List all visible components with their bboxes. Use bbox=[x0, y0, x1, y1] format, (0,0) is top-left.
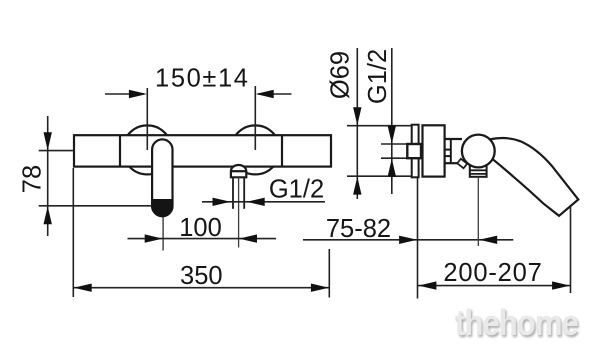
left escutcheon circle bbox=[123, 125, 172, 174]
connector bottom line bbox=[445, 162, 460, 164]
dim 150±14 left arrow bbox=[129, 90, 147, 98]
spout side view bbox=[489, 138, 578, 216]
fitting equator line bbox=[231, 170, 246, 172]
right escutcheon circle bbox=[231, 125, 280, 174]
svg-text:150±14: 150±14 bbox=[155, 65, 250, 93]
dim 350 line bbox=[73, 287, 329, 289]
fitting pipe left line bbox=[232, 177, 234, 209]
dim 150±14 line left tail bbox=[105, 93, 144, 95]
spout outlet dark opening bbox=[151, 199, 173, 217]
diverter knob ridge 1 bbox=[470, 169, 487, 171]
connector ridge line 1 bbox=[445, 149, 451, 151]
dim 100 line bbox=[128, 238, 277, 240]
dim 75-82 right arrow bbox=[479, 236, 497, 244]
dim 200-207 right arrow bbox=[552, 281, 570, 289]
dim G1/2 bottom extension bbox=[381, 157, 408, 159]
dim 350 left extension bbox=[72, 168, 74, 297]
ball centerline bbox=[477, 177, 479, 246]
dim 350 right extension bbox=[328, 249, 330, 298]
dim Ø69 bottom arrow bbox=[353, 177, 361, 195]
wall escutcheon plate A bbox=[412, 125, 419, 178]
wall reference extension line bbox=[417, 174, 419, 299]
temperature lever stub bbox=[457, 159, 467, 168]
dim G1/2 vertical line bbox=[391, 48, 393, 194]
dim 78 bottom extension (outlet) bbox=[39, 205, 152, 207]
body left cap divider bbox=[119, 135, 121, 166]
G1/2 leader left arrow bbox=[213, 198, 231, 206]
connector top line bbox=[445, 138, 462, 140]
G1/2 leader line front view bbox=[202, 201, 325, 203]
dim 200-207 line bbox=[418, 285, 571, 287]
G1/2 fitting dome front view bbox=[231, 165, 246, 177]
svg-text:100: 100 bbox=[179, 214, 222, 242]
fitting centerline bbox=[238, 177, 240, 247]
svg-text:G1/2: G1/2 bbox=[269, 176, 324, 204]
dim 75-82 line bbox=[303, 239, 513, 241]
svg-text:G1/2: G1/2 bbox=[364, 49, 392, 104]
dim 200-207 left arrow bbox=[418, 281, 436, 289]
body right cap divider bbox=[281, 135, 283, 166]
dim 150±14 line right tail bbox=[258, 93, 292, 95]
dim 350 right arrow bbox=[311, 284, 329, 292]
handle ball bbox=[462, 135, 495, 168]
fitting pipe right line bbox=[243, 177, 245, 209]
svg-text:Ø69: Ø69 bbox=[327, 51, 355, 99]
dim 78 bottom arrow bbox=[44, 206, 52, 224]
dim 150±14 right arrow bbox=[256, 90, 274, 98]
dim 100 left arrow bbox=[145, 234, 163, 242]
watermark thehome bbox=[455, 302, 575, 344]
connector ridge line 2 bbox=[445, 155, 451, 157]
G1/2 leader right arrow bbox=[247, 198, 265, 206]
dim G1/2 top arrow bbox=[388, 126, 396, 144]
dim 350 left arrow bbox=[74, 284, 92, 292]
diverter knob below ball bbox=[470, 160, 487, 177]
dim 75-82 left arrow bbox=[399, 236, 417, 244]
dim G1/2 top extension bbox=[381, 143, 408, 145]
connector ridge divider vertical bbox=[450, 139, 452, 163]
body bar bbox=[74, 135, 331, 166]
dim 78 vertical line bbox=[47, 116, 49, 236]
dim Ø69 top extension bbox=[347, 125, 412, 127]
spout capsule front view bbox=[152, 139, 172, 216]
dim 150±14 right extension bbox=[254, 86, 256, 150]
dim Ø69 top arrow bbox=[353, 107, 361, 125]
dim 150±14 left extension bbox=[146, 88, 148, 150]
dim Ø69 vertical line bbox=[356, 48, 358, 199]
spout tip extension line bbox=[570, 206, 572, 293]
diverter knob ridge 2 bbox=[470, 173, 487, 175]
dim G1/2 bottom arrow bbox=[388, 159, 396, 177]
flange plate B bbox=[423, 125, 445, 176]
dim 100 right arrow bbox=[239, 234, 257, 242]
dim Ø69 bottom extension bbox=[347, 175, 412, 177]
svg-text:200-207: 200-207 bbox=[443, 259, 542, 287]
svg-text:350: 350 bbox=[180, 262, 223, 290]
wall nipple G1/2 bbox=[407, 144, 421, 158]
dim 78 top extension (bar axis) bbox=[39, 150, 74, 152]
spout centerline bbox=[162, 217, 164, 251]
svg-text:78: 78 bbox=[19, 165, 47, 193]
svg-text:75-82: 75-82 bbox=[326, 215, 391, 243]
dim 78 top arrow bbox=[44, 132, 52, 150]
